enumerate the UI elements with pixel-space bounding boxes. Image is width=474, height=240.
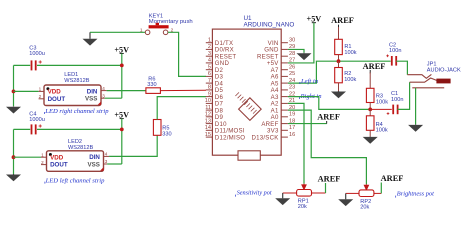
svg-text:4: 4 [102,86,105,91]
wire node to R4 [369,109,371,115]
svg-text:12: 12 [205,112,211,118]
LED2 pin stubs [41,156,47,158]
svg-text:1: 1 [41,152,44,157]
svg-text:330: 330 [147,82,156,88]
svg-text:26: 26 [289,65,295,71]
ground RP1 [282,193,284,198]
svg-text:100k: 100k [376,128,388,134]
wire LED1 VDD [14,90,39,92]
svg-text:15: 15 [205,132,211,138]
wire KEY1 pin2 to D3 [168,32,206,76]
svg-text:6: 6 [208,71,211,77]
svg-text:Brightness pot: Brightness pot [397,191,434,198]
svg-text:Sensitivity pot: Sensitivity pot [237,190,272,197]
wire C4 rail [14,128,31,130]
wire RP2 right to AREF [374,192,381,194]
capacitor C4 [31,124,33,134]
resistor R3 [366,88,374,102]
svg-text:AREF: AREF [318,175,341,184]
capacitor C1 [392,105,394,115]
svg-text:20k: 20k [298,204,307,210]
svg-text:16: 16 [289,132,295,138]
svg-text:DIN: DIN [89,154,100,161]
svg-text:AREF: AREF [317,112,340,121]
svg-text:D12/MISO: D12/MISO [215,134,245,141]
svg-text:5: 5 [208,65,211,71]
svg-text:LED right channel strip: LED right channel strip [44,108,109,115]
svg-text:D13/SCK: D13/SCK [251,134,278,141]
wire LED2 VDD [14,156,42,158]
svg-text:8: 8 [208,85,211,91]
wire LED2 DIN to R5 [109,135,157,156]
resistor R5 [153,120,161,136]
wire jack sleeve to ground [415,88,417,125]
svg-text:VSS: VSS [85,96,97,103]
potentiometer RP1 [297,190,312,197]
wire A2 pin21 to RP1 wiper [288,103,304,183]
wire LED2 VSS to rail [107,163,122,165]
wire LED1 DIN to R6 [107,90,146,92]
svg-text:100k: 100k [344,50,356,56]
wire AREF to R3 [369,72,371,88]
svg-text:4: 4 [208,58,211,64]
wire R5 to D6 pin 9 [157,97,206,120]
svg-text:DOUT: DOUT [48,96,66,103]
wire +5V to pin27 [288,23,314,63]
wire left rail lower [13,129,15,174]
svg-text:30: 30 [289,38,295,44]
svg-text:VDD: VDD [48,89,62,96]
wire RP1 right to AREF [312,192,326,194]
node rail-LED2 junction [12,155,16,159]
svg-text:17: 17 [289,125,295,131]
LED1 pin stubs [39,90,44,92]
svg-text:330: 330 [162,131,171,137]
wire GND pin29 to ground [288,49,304,52]
wire RP2 left to ground [346,192,359,194]
U1 left pin stubs and numbers [205,38,213,138]
svg-text:AREF: AREF [381,174,404,183]
wire R1 to node [338,55,340,62]
ground R2 [338,90,340,93]
wire LED1 VSS to rail [105,97,122,99]
svg-text:2: 2 [208,44,211,50]
wire R3 to node [369,103,371,110]
wire C2 to jack tip contact [396,61,407,74]
wire node to R2 [338,61,340,67]
U1 right pin stubs and numbers [281,38,295,138]
svg-text:1000u: 1000u [29,117,45,123]
wire R4 to ground [369,130,371,136]
wire C1 to jack ring contact [398,82,410,109]
svg-text:28: 28 [289,51,295,57]
wire RP1 left to ground [283,192,297,194]
svg-text:AREF: AREF [363,62,386,71]
svg-text:DIN: DIN [87,88,98,95]
svg-text:Momentary push: Momentary push [149,19,193,25]
wire C3 top rail [14,64,31,66]
U1 right pin labels [251,40,279,141]
ground left lower [13,173,15,176]
ground KEY1 [89,32,91,39]
svg-text:2: 2 [39,94,42,99]
resistor R2 [335,68,343,83]
LED2 WS2812B body [47,151,104,172]
wire +5V rail lower [121,119,123,164]
ground jack [415,123,417,126]
ground RP2 [345,193,347,199]
U1 USB connector [238,151,260,160]
svg-text:1: 1 [140,27,143,33]
U1 left pin labels [215,40,245,141]
svg-text:13: 13 [205,118,211,124]
wire node to C1 [370,108,392,110]
svg-text:14: 14 [205,125,211,131]
wire R2 to ground [338,83,340,91]
svg-text:AREF: AREF [331,16,354,25]
svg-text:VSS: VSS [88,162,100,169]
svg-text:VDD: VDD [50,154,64,161]
svg-text:3: 3 [208,51,211,57]
wire pin18 AREF stub [288,123,327,125]
svg-text:19: 19 [289,112,295,118]
wire ground to KEY1 pin1 [90,31,145,33]
svg-text:25: 25 [289,71,295,77]
svg-text:ARDUINO_NANO: ARDUINO_NANO [244,22,295,29]
wire audio left channel horizontal [288,61,391,83]
node R3 R4 C1 junction [368,108,372,112]
svg-text:WS2812B: WS2812B [68,145,93,151]
svg-text:AUDIO-JACK: AUDIO-JACK [427,67,461,73]
wire AREF to R1 [338,27,340,39]
wire +5V rail upper [121,53,123,98]
svg-text:WS2812B: WS2812B [64,78,89,84]
ground U1 GND [303,52,305,55]
svg-text:11: 11 [205,105,211,111]
ground R4 [369,135,371,138]
svg-text:4: 4 [105,152,108,157]
svg-text:100k: 100k [376,100,388,106]
svg-text:100n: 100n [391,97,403,103]
resistor R1 [335,39,343,54]
svg-text:DOUT: DOUT [50,162,68,169]
capacitor C2 [391,56,393,66]
U1 ATmega glyph [235,92,261,120]
wire A1 pin20 to RP2 wiper [288,110,367,184]
svg-text:7: 7 [208,78,211,84]
potentiometer RP2 [359,190,374,197]
node R1 R2 C2 junction [337,59,341,63]
resistor R6 [146,88,161,94]
svg-text:1: 1 [39,87,42,92]
ground left upper [13,105,15,108]
node rail-LED1 junction [12,90,16,94]
svg-text:100k: 100k [344,77,356,83]
svg-text:10: 10 [205,98,211,104]
wire left rail upper [13,65,15,106]
svg-text:Left in: Left in [300,78,319,85]
resistor R4 [366,116,374,131]
svg-text:+5V: +5V [307,14,322,23]
svg-text:9: 9 [208,91,211,97]
svg-text:1: 1 [208,38,211,44]
capacitor C3 [31,60,33,70]
op-amp U1 ARDUINO_NANO body [212,29,281,155]
svg-text:20k: 20k [360,205,369,211]
node C3-rail junction [120,64,124,68]
svg-text:LED left channel strip: LED left channel strip [45,177,105,184]
svg-text:100n: 100n [389,48,401,54]
svg-text:23: 23 [289,85,295,91]
wire audio right channel horizontal [288,97,370,110]
LED1 WS2812B body [44,85,101,106]
svg-text:2: 2 [41,160,44,165]
node C4-rail junction [120,127,124,131]
wire R6 to D5 pin 8 [160,89,206,91]
svg-text:1000u: 1000u [29,51,45,57]
